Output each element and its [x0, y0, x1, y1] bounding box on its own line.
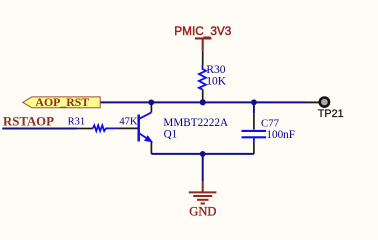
svg-text:PMIC_3V3: PMIC_3V3 [174, 24, 231, 38]
svg-text:GND: GND [189, 204, 216, 218]
wire stub from top wire [253, 102, 255, 113]
body zigzag [93, 125, 118, 131]
emitter pin [150, 142, 152, 154]
svg-text:MMBT2222A: MMBT2222A [163, 117, 228, 129]
power port PMIC_3V3 [174, 24, 231, 51]
base bar [137, 115, 140, 142]
svg-text:RSTAOP: RSTAOP [3, 115, 54, 129]
svg-text:10K: 10K [206, 76, 227, 88]
plate 2 lead [253, 138, 255, 141]
wire RSTAOP to R31 [2, 128, 77, 130]
body zigzag [199, 65, 206, 90]
test point pin [305, 101, 319, 103]
port AOP_RST [23, 95, 100, 109]
resistor R30 [199, 51, 227, 103]
transistor Q1 MMBT2222A [139, 102, 228, 154]
gnd bar 1 [189, 191, 217, 193]
collector pin [150, 102, 152, 112]
capacitor C77 [242, 102, 296, 154]
junction node: GND / bottom wire [200, 151, 206, 157]
resistor R31 [68, 117, 138, 132]
svg-text:47K: 47K [119, 117, 137, 128]
emitter diagonal [140, 134, 152, 142]
junction node: Q1 collector / top wire [148, 99, 154, 105]
svg-text:Q1: Q1 [164, 129, 178, 141]
svg-text:AOP_RST: AOP_RST [35, 95, 89, 109]
test point TP21 [318, 98, 344, 120]
wire down [202, 154, 204, 181]
wire bottom (emitter to C77) [151, 153, 254, 155]
pin 1 [253, 114, 255, 130]
pin 2 [253, 141, 255, 154]
ground GND [189, 154, 217, 219]
gnd bar 2 [193, 195, 212, 197]
svg-text:TP21: TP21 [318, 108, 344, 120]
gnd bar 4 [201, 203, 205, 205]
svg-text:R30: R30 [206, 64, 225, 76]
gnd bar 3 [197, 199, 209, 201]
junction node: C77 / top wire [251, 99, 257, 105]
pin 1 (top) [202, 51, 204, 65]
svg-text:100nF: 100nF [266, 129, 295, 141]
svg-text:R31: R31 [68, 117, 86, 128]
emitter arrow [145, 136, 153, 142]
plate 1 [242, 130, 267, 132]
gnd stem [202, 181, 204, 192]
port RSTAOP [3, 115, 54, 129]
pin 2 (right) / Q1 base pin [118, 127, 138, 129]
svg-text:C77: C77 [261, 118, 280, 130]
pin 2 (bottom) [202, 90, 204, 103]
wire net AOP_RST (top horizontal) [100, 101, 305, 103]
plate 2 [242, 136, 267, 138]
collector diagonal [140, 112, 152, 118]
junction node: R30 / top wire [200, 99, 206, 105]
pin 1 (left) [77, 128, 93, 130]
